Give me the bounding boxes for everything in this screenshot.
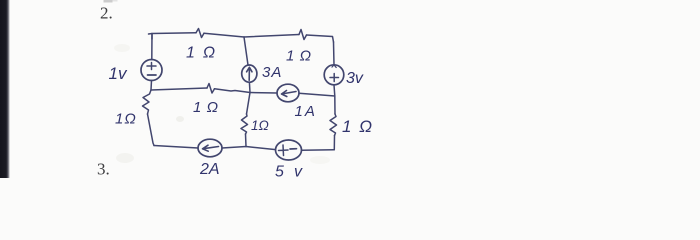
svg-text:1Ω: 1Ω	[251, 118, 269, 133]
current source I1 (3A) circle	[242, 65, 257, 82]
wire mid-right node to resistor R7	[334, 96, 336, 114]
printed list numbers	[97, 4, 113, 179]
V2 top entry tick	[332, 65, 336, 68]
handwritten value labels	[109, 45, 373, 181]
wire I1 to middle crossing	[248, 82, 251, 92]
faint cropped text mark at top edge	[104, 0, 113, 3]
voltage source V3 (5V) circle	[276, 140, 302, 160]
svg-text:3A: 3A	[262, 64, 282, 81]
V1 plus sign	[147, 63, 156, 70]
wire mid node to resistor R2	[244, 35, 299, 38]
wire left vertical upper	[151, 34, 153, 60]
faint paper smudges	[114, 44, 330, 164]
resistor R2 (1 ohm, top right notch)	[299, 30, 307, 40]
svg-text:1Ω: 1Ω	[115, 111, 137, 128]
wire right vertical upper	[333, 42, 336, 65]
wire bottom-left segment	[154, 146, 198, 149]
V2 plus sign	[330, 74, 339, 82]
wire R3 to bottom-left corner	[148, 114, 155, 146]
wire R7 to bottom-right corner	[333, 136, 335, 150]
wire R4 to middle crossing	[215, 89, 251, 93]
wire I2 to mid-right node	[299, 93, 335, 96]
wire top-left to resistor R1	[149, 33, 197, 39]
wire middle horizontal left segment	[151, 88, 207, 90]
wire R1 to mid node	[204, 33, 244, 37]
svg-text:3.: 3.	[97, 160, 110, 179]
I3 left arrow	[203, 145, 219, 151]
wire I3 to bottom-middle node	[222, 147, 275, 150]
wire V2 to mid-right node	[333, 85, 336, 96]
wire V1 to mid-left node	[150, 81, 153, 91]
resistor R3 (1 ohm, left vertical zigzag)	[143, 90, 152, 114]
I1 up arrow	[247, 67, 252, 80]
wire middle vertical upper	[244, 37, 248, 65]
wire R6 to bottom wire	[245, 134, 248, 147]
wire V3 to bottom-right corner	[302, 149, 335, 152]
wire middle crossing to current source I2	[250, 92, 277, 95]
voltage source V2 (3V) circle	[324, 65, 344, 85]
resistor R4 (1 ohm, middle notch)	[207, 84, 215, 94]
V3 plus sign	[279, 145, 289, 156]
voltage source V1 (1V) circle	[141, 60, 162, 81]
svg-text:1A: 1A	[295, 103, 317, 120]
V3 minus sign	[290, 148, 297, 150]
paper background	[0, 0, 700, 178]
svg-text:1v: 1v	[109, 64, 128, 83]
I2 left arrow	[282, 91, 297, 97]
svg-text:2A: 2A	[199, 161, 220, 178]
wire R2 to top-right corner	[307, 35, 334, 42]
wire middle crossing to resistor R6	[247, 93, 251, 115]
svg-text:3v: 3v	[346, 70, 364, 87]
V1 minus sign	[148, 74, 157, 76]
resistor R6 (1 ohm, middle vertical zigzag)	[241, 114, 248, 134]
svg-text:2.: 2.	[100, 4, 113, 23]
current source I2 (1A) circle	[277, 84, 299, 102]
current source I3 (2A) circle	[198, 139, 222, 157]
resistor R7 (1 ohm, right vertical zigzag)	[330, 114, 337, 136]
resistor R1 (1 ohm, top left notch)	[196, 29, 204, 38]
